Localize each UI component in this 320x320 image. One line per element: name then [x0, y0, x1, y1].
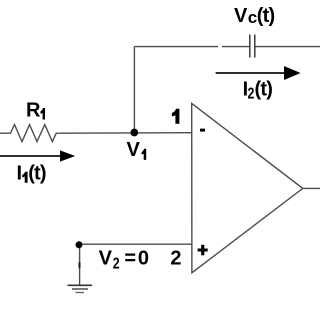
svg-text:(t): (t) [28, 163, 46, 185]
svg-text:I: I [17, 163, 23, 185]
svg-text:V: V [234, 5, 248, 27]
svg-text:2: 2 [113, 254, 120, 272]
svg-text:V: V [99, 247, 113, 269]
svg-text:R: R [26, 100, 41, 122]
svg-text:=: = [124, 247, 136, 269]
svg-text:(t): (t) [255, 78, 273, 100]
svg-text:2: 2 [170, 247, 181, 269]
svg-text:2: 2 [248, 84, 255, 102]
svg-text:0: 0 [138, 247, 149, 269]
svg-text:(t): (t) [257, 5, 275, 27]
svg-text:V: V [127, 139, 141, 161]
